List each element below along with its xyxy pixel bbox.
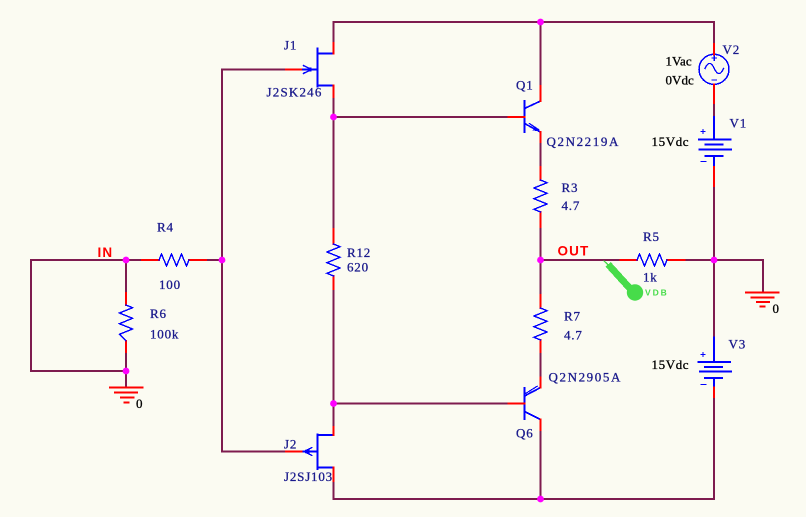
wire J2 gate segment: [222, 451, 286, 453]
svg-text:Q2N2905A: Q2N2905A: [549, 370, 622, 385]
svg-text:Q1: Q1: [516, 78, 534, 93]
svg-text:0: 0: [136, 396, 143, 411]
transistor Q6 (Q2N2905A PNP): [524, 388, 526, 419]
wire Q6 collector to bottom rail: [540, 430, 542, 499]
wire V2 to V1: [713, 103, 715, 117]
wire R6 to lower node: [125, 352, 127, 371]
junction J2 drain node: [330, 400, 337, 407]
wire IN node to R6: [125, 260, 127, 293]
wire V1 to mid rail node: [713, 186, 715, 260]
svg-text:V2: V2: [723, 42, 741, 57]
junction J1 source node: [330, 114, 337, 121]
wire IN to R4: [126, 259, 142, 261]
wire IN loop: [31, 260, 126, 371]
svg-text:4.7: 4.7: [562, 198, 581, 213]
resistor R4: [142, 259, 206, 261]
svg-text:Q6: Q6: [516, 426, 534, 441]
svg-text:VDB: VDB: [645, 288, 669, 298]
wire node to J2 drain: [333, 404, 335, 428]
wire lower node to ground: [125, 371, 127, 387]
svg-text:R6: R6: [150, 306, 167, 321]
ground 0 (right): [746, 293, 779, 307]
junction mid rail node: [711, 257, 718, 264]
transistor J1 (J2SK246 N-JFET): [303, 49, 334, 87]
wire node to R12 top: [333, 117, 335, 229]
svg-text:15Vdc: 15Vdc: [652, 134, 690, 149]
svg-text:V1: V1: [730, 116, 748, 131]
ground 0 (left): [110, 388, 143, 403]
wire OUT node to R7: [540, 260, 542, 295]
svg-text:Q2N2219A: Q2N2219A: [547, 134, 620, 149]
svg-text:J2SJ103: J2SJ103: [284, 469, 333, 484]
wire J2 source to bottom rail: [333, 481, 335, 499]
svg-text:V3: V3: [729, 337, 747, 352]
wire R4 to gate bus: [206, 259, 222, 261]
svg-text:R12: R12: [347, 245, 371, 260]
resistor R7: [540, 295, 542, 352]
transistor J2 (J2SJ103 P-JFET): [304, 435, 334, 470]
junction IN loop bottom: [123, 368, 130, 375]
svg-text:OUT: OUT: [558, 244, 590, 259]
svg-text:R3: R3: [562, 180, 579, 195]
svg-text:100k: 100k: [150, 327, 179, 342]
source V1 (15Vdc battery): [699, 117, 731, 167]
wire J1 drain to top rail: [333, 22, 335, 43]
wire top rail: [334, 21, 715, 23]
resistor R6: [125, 293, 127, 352]
wire Q1 collector to top rail: [540, 22, 542, 86]
wire R12 bottom to node: [333, 289, 335, 404]
svg-text:1Vac: 1Vac: [666, 54, 692, 69]
resistor R5: [621, 259, 685, 261]
svg-text:J2: J2: [284, 437, 297, 452]
svg-text:R5: R5: [643, 229, 660, 244]
svg-text:620: 620: [347, 260, 369, 275]
resistor R12: [333, 229, 335, 289]
wire node to Q6 base: [334, 403, 509, 405]
junction top rail / Q1 collector: [537, 19, 544, 26]
wire R3 to OUT node: [540, 227, 542, 260]
wire J1 source to node: [333, 97, 335, 117]
wire Q1 emitter to R3: [540, 142, 542, 167]
svg-text:R7: R7: [564, 309, 581, 324]
svg-text:IN: IN: [98, 245, 114, 260]
source V3 (15Vdc battery): [699, 338, 732, 388]
junction IN node: [123, 257, 130, 264]
junction bottom rail / Q6 collector: [537, 496, 544, 503]
svg-text:0Vdc: 0Vdc: [666, 73, 695, 88]
resistor R3: [540, 167, 542, 227]
wire J1 gate segment: [222, 69, 286, 71]
wire node to Q1 base: [334, 116, 509, 118]
svg-text:100: 100: [159, 277, 181, 292]
wire V3 to bottom rail: [713, 397, 715, 499]
wire mid node to ground: [714, 260, 763, 292]
wire R5 to mid rail node: [685, 259, 715, 261]
svg-text:15Vdc: 15Vdc: [652, 357, 690, 372]
source V2 (1Vac 0Vdc): [699, 54, 729, 84]
wire mid node to V3: [713, 260, 715, 338]
junction gate bus / R4: [219, 257, 226, 264]
svg-text:R4: R4: [157, 220, 174, 235]
wire top rail to V2: [713, 22, 715, 44]
transistor Q1 (Q2N2219A NPN): [524, 101, 526, 132]
svg-text:1k: 1k: [643, 270, 658, 285]
wire left gate bus: [221, 70, 223, 452]
wire bottom rail: [334, 498, 715, 500]
junction OUT node: [537, 257, 544, 264]
probe marker VDB: [604, 261, 610, 267]
svg-text:J1: J1: [284, 38, 297, 53]
svg-text:0: 0: [773, 301, 780, 316]
svg-text:J2SK246: J2SK246: [267, 85, 323, 100]
svg-text:4.7: 4.7: [564, 328, 583, 343]
wire OUT node to R5: [541, 259, 621, 261]
wire R7 to Q6 emitter: [540, 352, 542, 378]
